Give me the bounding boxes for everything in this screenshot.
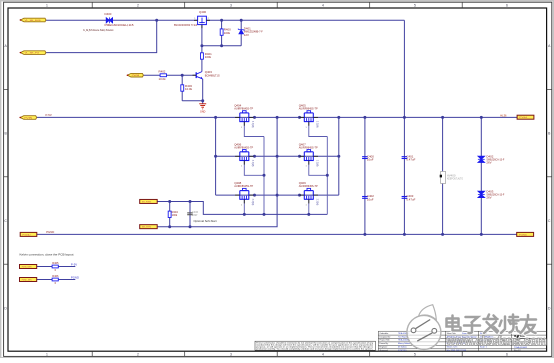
svg-text:10.0k: 10.0k	[185, 87, 193, 91]
svg-text:Optional Soft-Start: Optional Soft-Start	[194, 219, 217, 223]
svg-text:R406: R406	[52, 274, 59, 278]
svg-text:Approved:: Approved:	[380, 349, 389, 352]
svg-text:1: 1	[46, 352, 48, 356]
svg-text:BSC016N06NS 7Y-E3: BSC016N06NS 7Y-E3	[174, 23, 197, 27]
svg-text:100k: 100k	[172, 213, 178, 217]
svg-text:26V: 26V	[486, 161, 491, 165]
svg-text:VL_SE_BUS Reverse Polarity Pro: VL_SE_BUS Reverse Polarity Protection	[83, 29, 114, 32]
svg-text:3.3(M): 3.3(M)	[315, 160, 317, 167]
svg-text:0.47uF: 0.47uF	[406, 158, 415, 162]
svg-text:Kelvin connection, close the P: Kelvin connection, close the PCB layout	[20, 253, 74, 257]
svg-text:10.0k: 10.0k	[159, 77, 167, 81]
svg-text:6/13/2019: 6/13/2019	[398, 350, 406, 352]
svg-text:AUIRF8645S-TP: AUIRF8645S-TP	[299, 107, 318, 111]
svg-text:GND: GND	[200, 110, 206, 113]
svg-text:PWM: PWM	[132, 75, 140, 77]
svg-text:5: 5	[414, 3, 416, 7]
svg-text:HL36: HL36	[500, 113, 507, 117]
svg-text:10uF: 10uF	[367, 197, 374, 201]
svg-text:5: 5	[414, 352, 416, 356]
svg-text:AUIRF8645S-TP: AUIRF8645S-TP	[234, 145, 253, 149]
svg-text:SR_PWM: SR_PWM	[142, 201, 151, 203]
svg-text:P-5V: P-5V	[71, 263, 77, 267]
svg-text:4: 4	[322, 352, 324, 356]
svg-text:Q400: Q400	[199, 10, 206, 14]
svg-text:2: 2	[137, 352, 139, 356]
svg-text:PVIN_SEN: PVIN_SEN	[22, 266, 32, 268]
svg-text:www.elecfans.com: www.elecfans.com	[446, 333, 547, 348]
svg-text:PVdd: PVdd	[519, 117, 527, 119]
svg-text:2: 2	[208, 18, 209, 20]
svg-text:PGND: PGND	[519, 234, 528, 236]
svg-text:AUIRF8645S-TP: AUIRF8645S-TP	[234, 184, 253, 188]
svg-text:1: 1	[194, 18, 195, 20]
svg-text:AUIRF8645S-TP: AUIRF8645S-TP	[299, 184, 318, 188]
svg-text:3.3(M): 3.3(M)	[251, 199, 253, 206]
svg-text:6: 6	[506, 3, 508, 7]
svg-text:6: 6	[506, 352, 508, 356]
svg-text:3.3(M): 3.3(M)	[315, 199, 317, 206]
svg-text:3.3(M): 3.3(M)	[251, 160, 253, 167]
svg-text:Designed for:: Designed for:	[380, 335, 392, 338]
svg-text:2: 2	[137, 3, 139, 7]
svg-text:PMEG6010CEH,115: PMEG6010CEH,115	[105, 23, 134, 27]
svg-text:PGND: PGND	[71, 276, 79, 280]
svg-text:PVIN: PVIN	[24, 118, 32, 120]
svg-text:3.3(M): 3.3(M)	[251, 121, 253, 128]
svg-text:SR_RTN: SR_RTN	[142, 227, 152, 229]
svg-text:100k: 100k	[205, 55, 212, 59]
svg-text:DNP: DNP	[192, 213, 198, 217]
svg-text:Project Title:: Project Title:	[380, 339, 391, 342]
svg-text:R405: R405	[52, 261, 59, 265]
svg-text:0.47uF: 0.47uF	[406, 197, 415, 201]
svg-text:VL_SE_PG: VL_SE_PG	[25, 53, 40, 55]
svg-text:BC846BLT1G: BC846BLT1G	[205, 73, 220, 77]
svg-text:PGND: PGND	[22, 234, 31, 236]
svg-text:26V: 26V	[486, 196, 491, 200]
svg-text:Rev: E1: Rev: E1	[514, 350, 521, 352]
svg-text:Engineer:: Engineer:	[380, 346, 389, 349]
svg-text:Drawn By:: Drawn By:	[380, 342, 389, 345]
svg-text:D400: D400	[105, 12, 112, 16]
svg-text:10uF: 10uF	[367, 158, 374, 162]
svg-text:4: 4	[322, 3, 324, 7]
svg-text:AUIRF8645S-TP: AUIRF8645S-TP	[234, 107, 253, 111]
svg-text:100k: 100k	[224, 31, 231, 35]
svg-text:P-5V: P-5V	[46, 113, 52, 117]
svg-text:KEEPOUT,ALTO: KEEPOUT,ALTO	[447, 178, 463, 181]
svg-text:PGND_SEN: PGND_SEN	[22, 279, 32, 281]
svg-text:3: 3	[230, 352, 232, 356]
svg-text:1: 1	[46, 3, 48, 7]
svg-text:12V: 12V	[244, 33, 249, 37]
svg-text:3.3(M): 3.3(M)	[315, 121, 317, 128]
svg-text:PGND: PGND	[46, 230, 54, 234]
svg-text:AUIRF8645S-TP: AUIRF8645S-TP	[299, 145, 318, 149]
svg-text:production worthy. You should: production worthy. You should completely…	[256, 348, 374, 351]
svg-text:Manny Soltero: Manny Soltero	[398, 342, 410, 345]
svg-text:VL_SE_BUS: VL_SE_BUS	[25, 20, 42, 22]
svg-text:File: PWR_INPUT.DSN: File: PWR_INPUT.DSN	[447, 350, 467, 352]
svg-text:3: 3	[230, 3, 232, 7]
svg-text:M. Soltero: M. Soltero	[398, 346, 407, 349]
svg-text:R402: R402	[159, 70, 166, 74]
svg-text:Orderable:: Orderable:	[380, 332, 389, 335]
